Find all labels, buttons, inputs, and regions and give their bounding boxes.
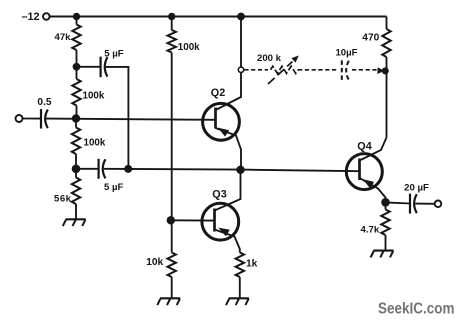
svg-text:100k: 100k — [84, 138, 106, 149]
svg-text:–12: –12 — [21, 11, 39, 23]
svg-text:10µF: 10µF — [335, 47, 357, 58]
svg-text:10k: 10k — [146, 257, 163, 268]
svg-text:100k: 100k — [83, 91, 105, 102]
svg-text:0.5: 0.5 — [37, 97, 51, 108]
svg-text:SeekIC.com: SeekIC.com — [378, 301, 455, 318]
svg-text:5 µF: 5 µF — [104, 182, 124, 193]
svg-text:Q3: Q3 — [212, 188, 226, 200]
svg-text:4.7k: 4.7k — [361, 224, 380, 235]
svg-text:Q4: Q4 — [357, 140, 371, 152]
svg-text:Q2: Q2 — [211, 87, 225, 99]
svg-text:56k: 56k — [54, 193, 72, 204]
svg-text:200 k: 200 k — [257, 53, 282, 64]
svg-text:470: 470 — [362, 32, 379, 43]
svg-text:1k: 1k — [246, 258, 258, 269]
svg-text:20 µF: 20 µF — [404, 183, 429, 194]
svg-text:5 µF: 5 µF — [104, 48, 124, 59]
svg-text:47k: 47k — [54, 32, 71, 43]
svg-text:100k: 100k — [178, 42, 200, 53]
